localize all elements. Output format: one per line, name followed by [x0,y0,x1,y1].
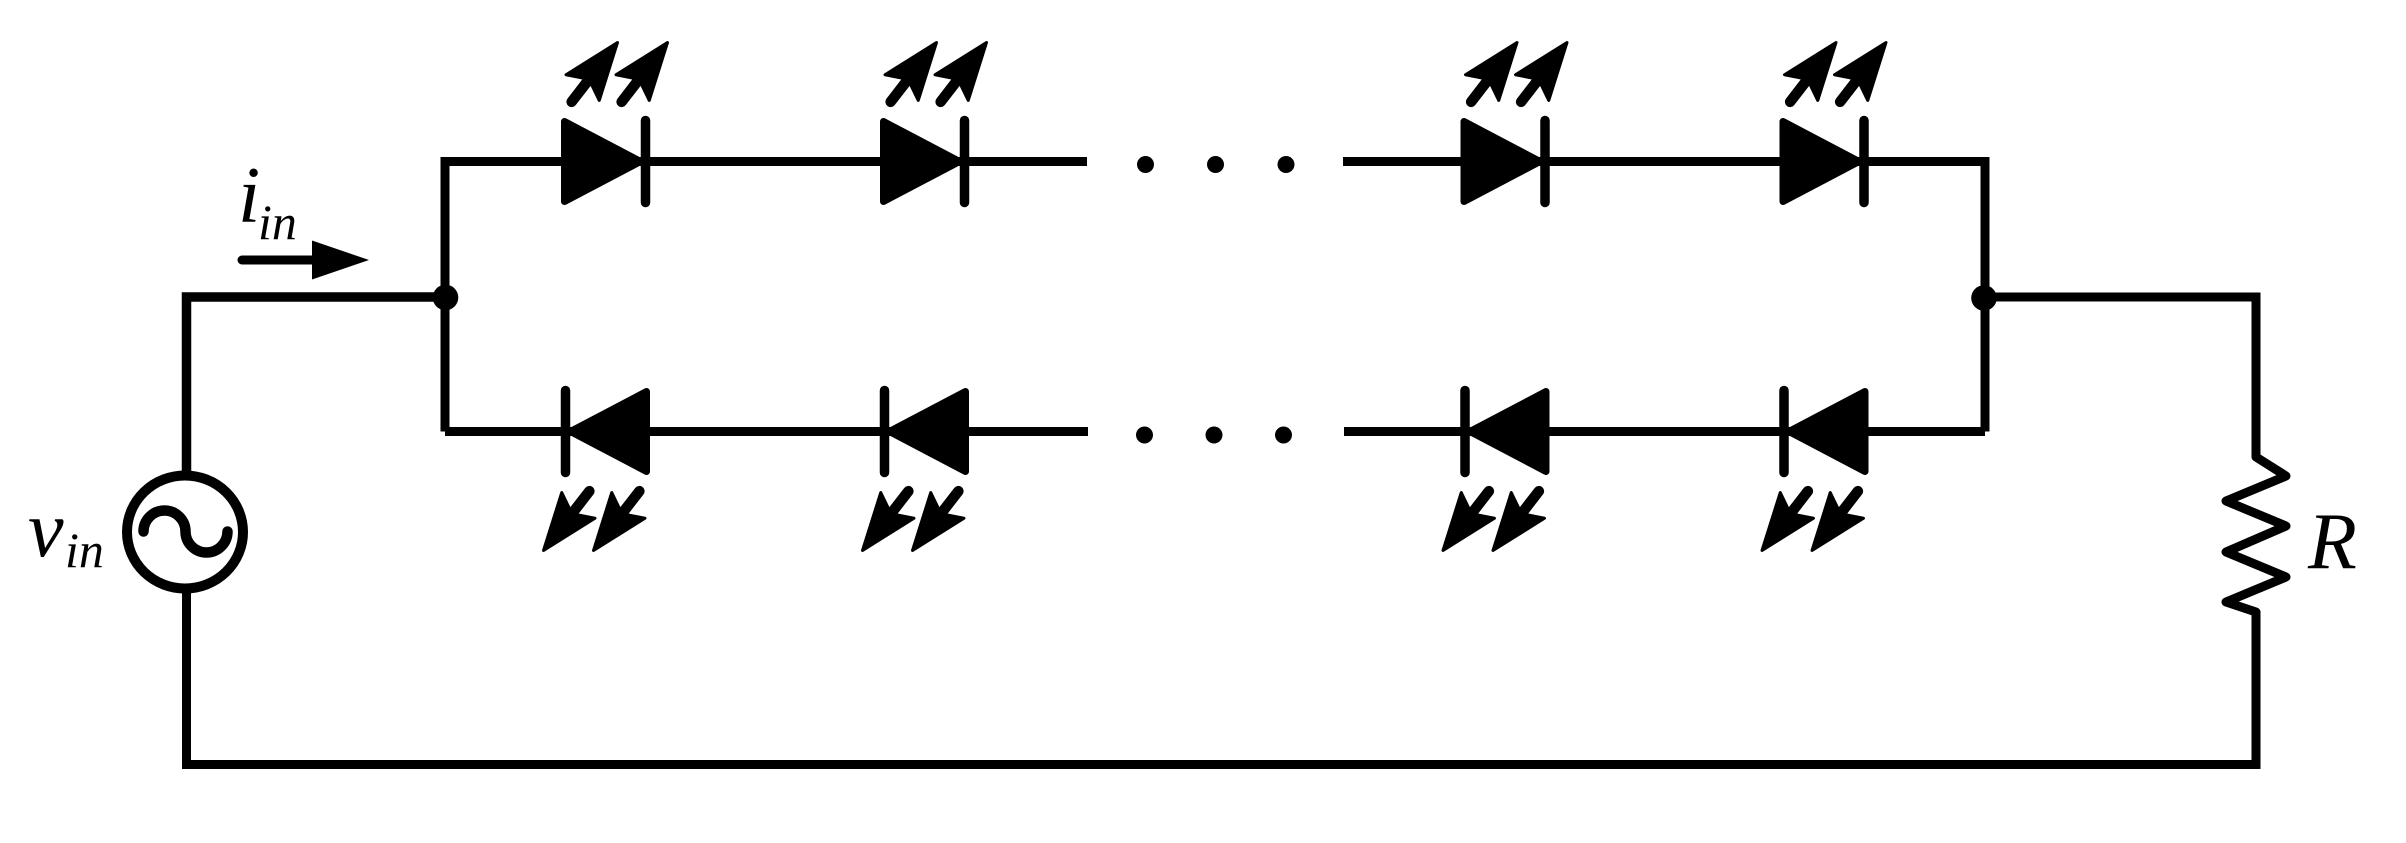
LED D4 top [1774,30,1903,203]
node A junction dot [433,285,459,311]
node B junction dot [1971,285,1997,311]
wire node B to resistor top [1985,297,2257,457]
label v_in [28,486,104,578]
wire bottom branch right segment [1344,427,1985,436]
wire bottom branch left segment [445,427,1088,436]
label i_in [238,152,297,250]
resistor R zigzag [2226,457,2286,612]
wire bottom rail: source bottom to resistor bottom [187,591,2257,765]
LED D8 bottom [1745,391,1874,564]
svg-text:in: in [258,194,297,250]
wire node A vertical and top branch left segment [445,162,1087,432]
svg-text:R: R [2307,498,2357,586]
LED D6 bottom [846,391,975,564]
ac source v_in circle [127,476,243,589]
LED D3 top [1455,30,1584,203]
svg-text:in: in [65,522,104,578]
ellipsis dots bottom branch [1136,427,1292,444]
LED D1 top [555,30,684,203]
wire top branch right segment and right vertical [1343,162,1985,432]
LED D2 top [874,30,1003,203]
wire left rail top: source to mid node [187,297,446,471]
LED D5 bottom [527,391,656,564]
ellipsis dots top branch [1137,156,1295,173]
svg-text:i: i [238,152,260,240]
current arrow i_in [242,241,369,280]
LED D7 bottom [1426,391,1555,564]
svg-text:v: v [28,486,64,574]
